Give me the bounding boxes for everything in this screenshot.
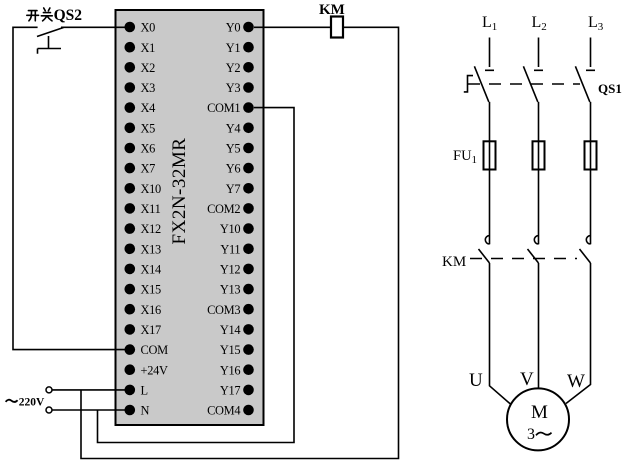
svg-text:X7: X7 [141,162,156,176]
svg-text:M: M [531,402,548,423]
svg-text:W: W [567,371,585,392]
svg-text:Y3: Y3 [226,81,241,95]
svg-text:Y11: Y11 [220,242,240,256]
svg-text:Y17: Y17 [220,384,241,398]
svg-text:X6: X6 [141,142,156,156]
svg-text:KM: KM [442,254,466,270]
svg-text:V: V [520,369,534,390]
svg-text:X17: X17 [141,323,162,337]
svg-text:COM1: COM1 [207,101,240,115]
svg-text:Y14: Y14 [220,323,241,337]
svg-text:N: N [141,404,150,418]
svg-text:COM: COM [141,343,169,357]
svg-text:X3: X3 [141,81,156,95]
svg-text:Y2: Y2 [226,61,241,75]
svg-text:Y15: Y15 [220,343,241,357]
svg-text:X5: X5 [141,121,156,135]
svg-text:KM: KM [319,2,345,18]
svg-text:X0: X0 [141,21,156,35]
svg-text:Y16: Y16 [220,363,241,377]
svg-text:COM3: COM3 [207,303,240,317]
svg-text:Y7: Y7 [226,182,241,196]
svg-text:COM2: COM2 [207,202,240,216]
svg-text:Y4: Y4 [226,121,241,135]
svg-text:3: 3 [527,426,535,443]
svg-text:Y10: Y10 [220,222,241,236]
svg-text:X14: X14 [141,263,162,277]
svg-text:X13: X13 [141,242,162,256]
svg-text:X11: X11 [141,202,161,216]
svg-text:Y12: Y12 [220,263,241,277]
svg-text:X15: X15 [141,283,162,297]
svg-text:X4: X4 [141,101,156,115]
svg-text:QS2: QS2 [54,7,83,24]
svg-text:Y1: Y1 [226,41,241,55]
svg-text:Y13: Y13 [220,283,241,297]
svg-text:Y5: Y5 [226,142,241,156]
svg-text:U: U [469,370,483,391]
svg-text:COM4: COM4 [207,404,240,418]
svg-text:Y6: Y6 [226,162,241,176]
svg-text:X12: X12 [141,222,162,236]
svg-text:L: L [141,384,148,398]
svg-text:X16: X16 [141,303,162,317]
svg-text:X10: X10 [141,182,162,196]
svg-text:FX2N-32MR: FX2N-32MR [169,138,190,245]
svg-text:QS1: QS1 [598,81,622,96]
svg-text:220V: 220V [19,396,45,408]
svg-text:X2: X2 [141,61,156,75]
svg-text:Y0: Y0 [226,21,241,35]
svg-text:+24V: +24V [141,363,168,377]
svg-text:X1: X1 [141,41,156,55]
